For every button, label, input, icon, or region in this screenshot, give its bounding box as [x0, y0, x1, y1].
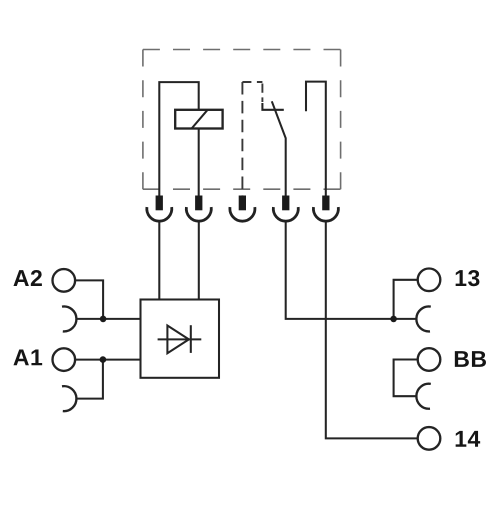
- wire: terminal1 down to suppressor box: [158, 221, 160, 300]
- socket arc below A2: [62, 306, 76, 331]
- terminal A1 circle: [53, 348, 76, 371]
- junction node (13 row): [390, 316, 397, 323]
- socket arc below A1: [62, 386, 76, 411]
- terminal pin 4: [273, 196, 298, 222]
- wire: 13 circle to junction: [394, 280, 418, 319]
- wire: contact NC side to pin5: [306, 82, 326, 196]
- label A2: [13, 270, 41, 286]
- terminal 14 circle: [418, 427, 441, 450]
- terminal pin 3: [230, 196, 255, 222]
- wire: pin1 up-over to coil top: [159, 82, 198, 196]
- socket arc below BB: [416, 384, 430, 409]
- wire: A2 to junction: [75, 280, 103, 319]
- wire (dashed) pin3 to contact: [242, 82, 262, 196]
- suppressor module box: [141, 300, 220, 378]
- terminal 13 circle: [418, 269, 441, 292]
- label 14: [456, 431, 481, 447]
- relay contact fixed bar: [262, 103, 283, 110]
- wire: BB jumper to lower arc: [394, 360, 418, 397]
- wire: terminal4 down and right to node 13: [286, 221, 417, 319]
- label BB: [455, 351, 486, 367]
- terminal BB circle: [418, 348, 441, 371]
- wire: coil bottom to pin2: [198, 129, 200, 197]
- wire: terminal5 down and right to terminal 14: [326, 221, 418, 438]
- wire: A1 junction down-left to lower arc: [77, 360, 103, 399]
- junction node (A2 row): [100, 316, 107, 323]
- socket arc below 13: [416, 306, 430, 331]
- wire: terminal2 down to suppressor box: [198, 221, 200, 300]
- relay coil K1: [175, 110, 222, 129]
- wire: A1 to suppressor box left (A1 row): [75, 359, 140, 361]
- terminal A2 circle: [53, 269, 76, 292]
- terminal pin 5: [313, 196, 338, 222]
- diode D1: [158, 325, 202, 353]
- label 13: [456, 270, 480, 286]
- relay module outline (dashed box): [143, 50, 341, 190]
- relay contact blade: [272, 101, 286, 196]
- terminal pin 1: [147, 196, 172, 222]
- terminal pin 2: [186, 196, 211, 222]
- junction node (A1 row): [100, 356, 107, 363]
- label A1: [13, 349, 42, 365]
- wire: arc to suppressor box left (A2 row): [77, 318, 141, 320]
